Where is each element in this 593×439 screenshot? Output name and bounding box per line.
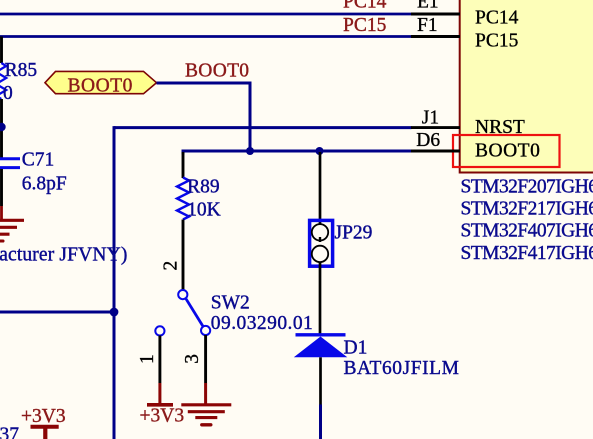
switch SW2 lever (diagonal) [186,299,203,327]
svg-text:E1: E1 [417,0,439,12]
svg-text:+3V3: +3V3 [140,406,185,427]
wire branch horizontal at y=312 [0,311,114,314]
svg-text:JP29: JP29 [335,223,373,244]
diode D1 cathode bar [296,333,346,336]
jumper JP29 pin2 circle [312,246,328,262]
svg-text:R89: R89 [187,177,220,198]
svg-text:37: 37 [0,425,19,439]
wire NRST vertical at left [113,126,116,439]
ground lead at pin3 [204,383,207,404]
svg-text:F1: F1 [417,15,438,36]
ground symbol at pin3 [181,405,231,425]
wire BOOT0 vertical down [249,83,252,151]
svg-text:PC14: PC14 [475,8,519,29]
port BOOT0 (yellow hexagon) [45,71,157,93]
switch SW2 pin1 contact circle [155,326,164,335]
wire JP29 to D1 (black) [319,262,322,334]
capacitor C71 lead bottom [0,169,3,206]
red highlight box around BOOT0 pin [453,135,560,167]
svg-text:PC14: PC14 [343,0,387,12]
svg-text:D1: D1 [344,337,368,358]
ground symbol under C71 [0,220,24,241]
svg-text:STM32F407IGH6: STM32F407IGH6 [461,221,593,242]
svg-text:STM32F217IGH6: STM32F217IGH6 [461,199,593,220]
wire corner down to R89 [182,150,185,155]
svg-text:10K: 10K [187,199,221,220]
svg-text:R85: R85 [5,60,38,81]
svg-text:BOOT0: BOOT0 [185,61,249,82]
resistor R85 lead bottom [0,99,3,158]
pin PC14 stub (E1) [411,13,460,16]
junction node at (319.5,150.5) [316,147,324,155]
svg-text:2: 2 [160,261,181,271]
wire JP29 branch vertical (black) [319,152,322,225]
svg-text:STM32F417IGH6: STM32F417IGH6 [461,243,593,264]
pin BOOT0 stub (D6) [411,150,460,153]
svg-text:+3V3: +3V3 [21,406,66,427]
svg-text:0: 0 [3,83,13,104]
+3V3 power bar at pin1 [147,403,173,407]
pin NRST stub (J1) [411,126,460,129]
svg-text:C71: C71 [22,149,55,170]
svg-text:D6: D6 [416,130,440,151]
resistor R89 lead top [182,152,185,178]
svg-text:BOOT0: BOOT0 [68,76,133,97]
junction node on R85/C71 wire [0,123,6,131]
resistor R85 lead top [0,37,3,64]
svg-text:J1: J1 [422,108,439,129]
pin PC15 stub (F1) [411,35,460,38]
svg-text:SW2: SW2 [211,293,250,314]
junction node at (114,312) [110,308,119,317]
wire BOOT0 pin net horizontal (D6 row) [183,150,412,153]
svg-text:PC15: PC15 [343,15,386,36]
SW2 pin3 lead down [204,335,207,383]
wire NRST net horizontal [114,126,412,129]
svg-text:3: 3 [182,354,203,364]
svg-text:09.03290.01: 09.03290.01 [211,313,313,334]
wire PC15 net horizontal [0,35,412,38]
resistor R85 zigzag [0,63,6,99]
jumper JP29 rectangle [310,220,333,266]
switch SW2 pin2 contact circle [178,290,187,299]
ground lead under C71 [0,206,3,220]
jumper JP29 pin tick [319,237,321,242]
capacitor C71 plates [0,157,20,160]
svg-text:6.8pF: 6.8pF [22,173,67,194]
wire from port to BOOT0 net [157,82,252,85]
wire D1 anode down (black) [319,357,322,404]
svg-text:PC15: PC15 [475,31,518,52]
svg-text:(manufacturer JFVNY): (manufacturer JFVNY) [0,244,127,265]
+3V3 power stub bottom-left [43,427,47,439]
+3V3 power stub at pin1 [158,383,161,403]
IC U5 STM32 part body (yellow block) [460,0,593,173]
switch SW2 pin3 contact circle [201,326,210,335]
diode D1 triangle [294,337,348,358]
wire PC14 net horizontal [0,13,412,16]
svg-text:1: 1 [137,354,158,364]
resistor R89 zigzag [177,178,189,220]
svg-text:BOOT0: BOOT0 [475,140,540,161]
svg-text:STM32F207IGH6: STM32F207IGH6 [461,177,593,198]
junction node at (250,150.5) [246,147,254,155]
resistor R89 lead bottom to SW2 pin2 [182,220,185,291]
jumper JP29 pin1 circle [312,224,328,240]
+3V3 power bar bottom-left [31,425,59,429]
svg-text:BAT60JFILM: BAT60JFILM [344,358,460,379]
SW2 pin1 lead down [158,336,161,384]
wire D1 to bottom (navy) [319,405,322,439]
